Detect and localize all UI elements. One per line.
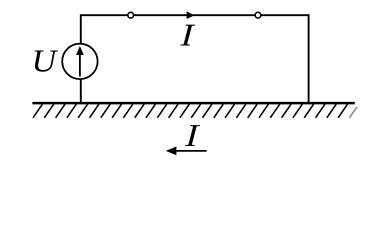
wire: top rail left segment	[81, 14, 194, 16]
terminal node (left open circle)	[128, 12, 134, 18]
source internal arrow (upward)	[79, 54, 81, 77]
wire: right vertical, rail to ground	[308, 14, 310, 103]
ground plane line	[32, 102, 354, 105]
svg-text:I: I	[179, 18, 196, 53]
wire: left vertical, rail to source top	[80, 14, 82, 44]
svg-text:U: U	[32, 43, 59, 79]
current direction arrowhead on top rail	[187, 11, 195, 19]
return current arrow (leftward)	[176, 150, 207, 152]
label I (top rail current)	[179, 18, 196, 53]
voltage source U (circle symbol)	[62, 44, 97, 79]
wire: top rail right segment	[194, 14, 309, 16]
ground hatch (faint, clipped at right end)	[349, 107, 357, 118]
label I (return current)	[184, 118, 201, 153]
terminal node (right open circle)	[255, 12, 261, 18]
ground plane hatching	[33, 104, 357, 118]
wire: left vertical, source bottom to ground	[80, 79, 82, 103]
label U (source voltage)	[32, 43, 59, 79]
svg-text:I: I	[184, 118, 201, 153]
